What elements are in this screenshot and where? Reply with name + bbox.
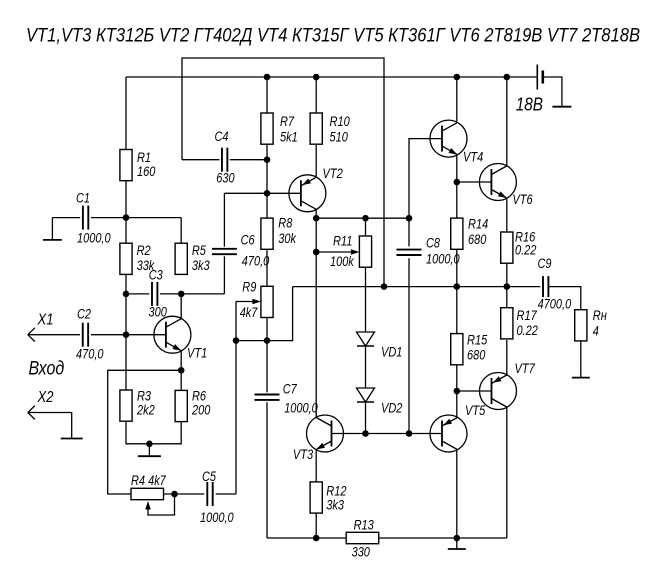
ground at R3/R6 xyxy=(148,444,150,456)
svg-text:470,0: 470,0 xyxy=(242,254,270,269)
transistor VT2 xyxy=(289,175,326,212)
svg-text:R1: R1 xyxy=(137,150,151,165)
ground at C1 xyxy=(51,218,53,240)
svg-text:C4: C4 xyxy=(215,129,229,144)
resistor R6 xyxy=(175,390,187,421)
svg-text:R14: R14 xyxy=(468,217,488,232)
resistor Rn (load) xyxy=(575,310,587,341)
transistor VT4 xyxy=(430,120,467,157)
svg-text:30k: 30k xyxy=(278,231,297,246)
node: VT1 base junction xyxy=(123,331,130,338)
svg-text:VT1,VT3 КТ312Б VT2 ГТ402Д VT4: VT1,VT3 КТ312Б VT2 ГТ402Д VT4 КТ315Г VT5… xyxy=(26,26,640,47)
svg-text:100k: 100k xyxy=(330,254,355,269)
node: feedback tap C7 junction xyxy=(264,337,271,344)
resistor R2 xyxy=(120,243,132,274)
node: VT6 collector junction xyxy=(504,74,511,81)
svg-text:160: 160 xyxy=(137,164,156,179)
wire: VT4 collector xyxy=(456,77,458,123)
capacitor C7 xyxy=(255,394,280,396)
diode VD2 xyxy=(357,388,375,402)
wire: C8 lower lead xyxy=(408,258,410,433)
wire: R17 bottom to VT7 emitter xyxy=(506,340,508,375)
wire: R3/R6 bottoms xyxy=(126,421,181,444)
resistor R15 xyxy=(451,334,463,365)
svg-text:R5: R5 xyxy=(192,243,206,258)
svg-text:R6: R6 xyxy=(192,389,206,404)
node: VT7 base junction xyxy=(454,388,461,395)
wire: C4 line right xyxy=(230,159,267,161)
svg-text:Вход: Вход xyxy=(29,358,65,380)
wire: VT1 collector lead xyxy=(180,294,182,319)
svg-text:VT5: VT5 xyxy=(465,403,486,418)
svg-text:R10: R10 xyxy=(330,114,351,129)
wire: C5 to feedback tap line xyxy=(216,493,236,495)
wire: R5 top lead xyxy=(180,218,182,244)
capacitor C4 xyxy=(221,148,223,172)
resistor R13 xyxy=(346,532,379,543)
resistor R7 xyxy=(261,113,273,144)
node: R11 wiper junction xyxy=(313,249,320,256)
resistor R16 xyxy=(501,232,513,263)
wire: R12 leads xyxy=(315,450,317,539)
wire: C1 to R1/R2 node xyxy=(91,217,181,219)
node: VT5 collector ground junction xyxy=(454,535,461,542)
wire: VT2 collector down to VT3 collector xyxy=(315,209,317,417)
svg-text:C5: C5 xyxy=(202,469,216,484)
node: R12 ground junction xyxy=(313,535,320,542)
svg-text:VT1: VT1 xyxy=(187,346,207,361)
wire: VT2 collector node line xyxy=(316,217,409,219)
capacitor C9 xyxy=(542,276,544,297)
wire: X2 line to ground xyxy=(28,413,72,429)
svg-text:R9: R9 xyxy=(242,280,256,295)
resistor R8 xyxy=(261,218,273,249)
capacitor C6 xyxy=(212,248,237,250)
resistor R14 xyxy=(451,218,463,249)
svg-text:2k2: 2k2 xyxy=(136,403,155,418)
capacitor C2 xyxy=(82,323,84,347)
svg-text:VD1: VD1 xyxy=(381,345,402,360)
resistor R3 xyxy=(120,390,132,421)
svg-text:R17: R17 xyxy=(517,308,538,323)
node: VT1 emitter junction xyxy=(178,367,185,374)
node: VD2/VT3 base junction xyxy=(362,430,369,437)
transistor VT6 xyxy=(479,164,516,201)
wire: VT7 base line xyxy=(457,390,492,392)
wire: C2 to VT1 base xyxy=(91,334,166,336)
svg-text:510: 510 xyxy=(330,130,349,145)
capacitor C8 xyxy=(397,249,422,251)
svg-text:C7: C7 xyxy=(283,382,297,397)
wire: VT4 emitter to VT6 base / R14 xyxy=(456,155,458,219)
ground at X2 xyxy=(71,429,73,439)
wire: output line xyxy=(293,286,541,288)
svg-text:R3: R3 xyxy=(137,389,151,404)
wire: R1 bottom to C1 node xyxy=(125,181,127,218)
node: VT4 base junction xyxy=(406,215,413,222)
resistor R1 xyxy=(120,150,132,181)
svg-text:4k7: 4k7 xyxy=(240,305,258,320)
wire: VD1 to VD2 xyxy=(365,346,367,388)
node: R7 top junction xyxy=(264,74,271,81)
svg-text:680: 680 xyxy=(468,232,487,247)
svg-text:680: 680 xyxy=(467,348,486,363)
svg-text:R11: R11 xyxy=(333,234,352,249)
capacitor C3 xyxy=(151,282,153,306)
node: VT4 collector junction xyxy=(454,74,461,81)
svg-text:3k3: 3k3 xyxy=(326,498,344,513)
svg-text:VD2: VD2 xyxy=(381,401,403,416)
battery 18V xyxy=(536,65,538,90)
svg-text:300: 300 xyxy=(149,305,168,320)
wire: VT7 collector to ground rail xyxy=(506,407,508,538)
wire: R1 top lead xyxy=(125,77,127,150)
svg-text:0.22: 0.22 xyxy=(515,243,537,258)
capacitor C1 xyxy=(82,206,84,230)
node: R1/C1 junction xyxy=(123,214,130,221)
node: C8/VT5 base junction xyxy=(406,430,413,437)
wire: C8 upper lead xyxy=(408,218,410,246)
node: R14/R15 output junction xyxy=(454,283,461,290)
svg-text:C6: C6 xyxy=(241,233,255,248)
svg-text:R13: R13 xyxy=(354,518,375,533)
svg-text:R12: R12 xyxy=(326,484,347,499)
wire: R7 bottom / R8 top node xyxy=(266,144,268,218)
node: R3/R6 ground junction xyxy=(146,441,153,448)
svg-text:X1: X1 xyxy=(37,312,54,329)
wire: R11 bottom to VD1 xyxy=(365,267,367,332)
resistor R5 xyxy=(175,243,187,274)
node: R10 top junction xyxy=(313,74,320,81)
svg-text:VT4: VT4 xyxy=(463,150,483,165)
wire: VT6 collector xyxy=(506,77,508,166)
wire: R6 top lead xyxy=(180,370,182,390)
wire: +18V rail xyxy=(126,76,537,78)
svg-text:R15: R15 xyxy=(467,333,488,348)
ground at output rail xyxy=(456,538,458,549)
svg-text:0.22: 0.22 xyxy=(517,323,539,338)
svg-text:470,0: 470,0 xyxy=(76,347,104,362)
wire: R4 right to C5 xyxy=(164,493,205,495)
svg-text:R2: R2 xyxy=(137,243,151,258)
wire: VD2 to VT5 base node xyxy=(365,402,367,434)
connector X2 arrow xyxy=(28,406,35,413)
svg-text:1000,0: 1000,0 xyxy=(426,252,460,267)
svg-text:C9: C9 xyxy=(538,256,552,271)
wire: Rn to ground xyxy=(580,341,582,368)
node: VT2 collector junction xyxy=(313,215,320,222)
wire: R9 wiper line xyxy=(236,301,253,303)
svg-text:1000,0: 1000,0 xyxy=(77,231,111,246)
svg-text:1000,0: 1000,0 xyxy=(284,401,318,416)
wire: C3 line right xyxy=(160,293,181,295)
wire: C3 node to C6 node xyxy=(181,293,224,295)
resistor R11 (trimmer) xyxy=(359,236,371,267)
wire: R2 leads xyxy=(125,218,127,294)
svg-text:VT3: VT3 xyxy=(293,447,314,462)
svg-text:4700,0: 4700,0 xyxy=(538,297,572,312)
wire: C7 bottom to ground rail xyxy=(266,402,268,538)
svg-text:VT6: VT6 xyxy=(512,192,533,207)
wire: VT1 emitter lead xyxy=(180,351,182,371)
resistor R4 (trimmer) xyxy=(131,488,164,499)
wire: X1 input line xyxy=(28,334,80,336)
transistor VT7 xyxy=(480,373,517,410)
node: C4/R7/R8 junction xyxy=(264,156,271,163)
ground at Rn xyxy=(580,368,582,378)
wire: R10 bottom to VT2 emitter xyxy=(315,144,317,177)
transistor VT5 xyxy=(430,415,467,452)
svg-text:1000,0: 1000,0 xyxy=(200,510,234,525)
svg-text:Rн: Rн xyxy=(593,308,608,323)
wire: R17 top lead xyxy=(506,287,508,308)
wire: VT4 base line xyxy=(409,139,442,219)
wire: R9 wiper drop to C5 xyxy=(235,302,237,495)
node: R16/R17 output junction xyxy=(504,283,511,290)
wire: VT2 base line xyxy=(224,192,301,194)
wire: battery to ground xyxy=(543,77,562,97)
transistor VT3 xyxy=(307,415,344,452)
resistor R17 xyxy=(501,308,513,339)
svg-text:R4 4k7: R4 4k7 xyxy=(131,473,166,488)
wire: C1 line xyxy=(52,217,80,219)
resistor R10 xyxy=(310,113,322,144)
capacitor C5 xyxy=(206,482,208,506)
wire: C3 line left xyxy=(126,293,149,295)
node: feedback line output junction xyxy=(381,283,388,290)
svg-text:R7: R7 xyxy=(280,114,294,129)
node: R11 top junction xyxy=(362,215,369,222)
svg-text:X2: X2 xyxy=(37,389,54,406)
wire: R11 top lead xyxy=(365,218,367,236)
wire: R11 wiper arrow xyxy=(316,251,352,253)
wire: R4 wiper xyxy=(148,494,175,515)
wire: R8 bottom to R9 top xyxy=(266,249,268,286)
wire: VT6 emitter to R16 xyxy=(506,198,508,232)
svg-text:C3: C3 xyxy=(149,268,163,283)
svg-text:C2: C2 xyxy=(77,307,91,322)
connector X1 arrow xyxy=(28,328,35,335)
svg-text:330: 330 xyxy=(352,545,371,560)
svg-text:R8: R8 xyxy=(278,216,292,231)
wire: R15 bottom to VT5 emitter xyxy=(456,365,458,418)
svg-text:4: 4 xyxy=(593,324,599,339)
wire: R14 bottom to output line xyxy=(456,249,458,286)
wire: C4 line left xyxy=(182,159,220,161)
ground at battery xyxy=(561,97,563,107)
wire: R2/C3 node to VT1 base node xyxy=(125,294,127,390)
svg-text:200: 200 xyxy=(191,403,211,418)
wire: C6 branch upper xyxy=(223,193,225,246)
svg-text:C1: C1 xyxy=(76,191,90,206)
svg-text:C8: C8 xyxy=(426,236,440,251)
node: VT2 base junction xyxy=(264,190,271,197)
resistor R12 xyxy=(310,482,322,513)
node: VT4 emitter/VT6 base junction xyxy=(454,179,461,186)
svg-text:18В: 18В xyxy=(516,94,543,115)
svg-text:630: 630 xyxy=(216,171,235,186)
wire: output to feedback tap xyxy=(236,287,293,341)
wire: VT1 emitter to R4 left xyxy=(108,370,182,494)
wire: R9 bottom / C7 top xyxy=(266,317,268,392)
wire: VT6 base line xyxy=(457,181,492,183)
wire: C9 to Rn xyxy=(548,287,580,310)
node: feedback tap C5 junction xyxy=(233,337,240,344)
wire: R10 top lead xyxy=(315,77,317,113)
node: R4/C5 junction xyxy=(171,491,178,498)
wire: ground rail bottom xyxy=(267,537,507,539)
wire: VT5 collector to ground rail xyxy=(456,450,458,539)
wire: R15 top lead xyxy=(456,287,458,334)
diode VD1 xyxy=(357,332,375,346)
wire: C6 branch lower xyxy=(223,256,225,294)
wire: VT3 base line xyxy=(332,433,443,435)
svg-text:5k1: 5k1 xyxy=(280,130,298,145)
transistor VT1 xyxy=(154,316,191,353)
svg-text:3k3: 3k3 xyxy=(192,258,210,273)
node: R2/C3 junction xyxy=(123,291,130,298)
svg-text:VT7: VT7 xyxy=(515,361,536,376)
wire: R16 bottom to output line xyxy=(506,261,508,287)
node: VT1 collector junction xyxy=(178,291,185,298)
wire: R7 top lead xyxy=(266,77,268,113)
svg-text:VT2: VT2 xyxy=(323,166,344,181)
resistor R9 (trimmer) xyxy=(261,286,273,317)
wire: feedback top line (C4 to output) xyxy=(182,58,384,287)
